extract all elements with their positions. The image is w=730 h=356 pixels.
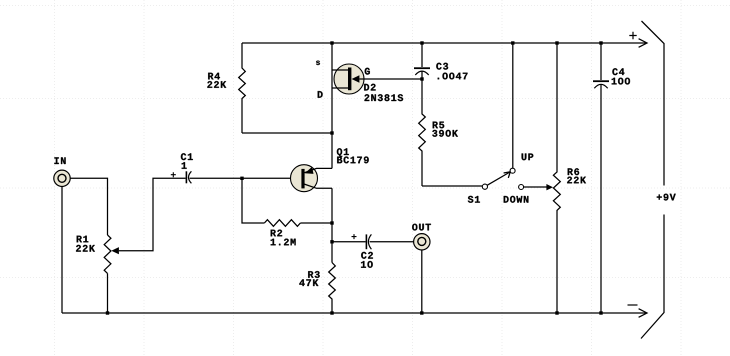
wire IN to R1 top bbox=[70, 178, 107, 235]
label C4 bbox=[612, 68, 624, 75]
junction C3 top rail bbox=[420, 41, 423, 44]
label R4 value 22K bbox=[207, 81, 226, 88]
wire C2 node to capacitor bbox=[332, 241, 366, 243]
junction R6 top rail bbox=[555, 41, 558, 44]
label C1 bbox=[181, 153, 193, 160]
label R1 value 22K bbox=[76, 245, 95, 252]
wire Q1 emitter down bbox=[331, 188, 333, 223]
connector IN bbox=[54, 170, 70, 186]
label D2 value 2N381S bbox=[365, 94, 404, 101]
potentiometer R6 bbox=[553, 43, 560, 313]
label R3 value 47K bbox=[299, 279, 318, 286]
label minus bbox=[628, 304, 638, 306]
label S1 bbox=[468, 196, 480, 203]
label plus bbox=[629, 32, 636, 39]
wire emitter node down to C2 node bbox=[331, 223, 333, 242]
capacitor C4 bbox=[593, 43, 609, 313]
label D2 bbox=[364, 84, 375, 91]
wire R5 to switch S1 bbox=[422, 185, 482, 187]
wire C2 to OUT bbox=[370, 241, 414, 243]
label UP bbox=[522, 154, 534, 161]
junction gate C3 node bbox=[420, 77, 423, 80]
junction collector node bbox=[330, 131, 333, 134]
junction R3 ground rail bbox=[330, 311, 333, 314]
wire D2 column bbox=[331, 43, 333, 133]
label R2 value 1.2M bbox=[271, 239, 296, 246]
wire R1 wiper to C1 bbox=[119, 178, 186, 250]
junction C4 ground rail bbox=[599, 311, 602, 314]
junction C4 top rail bbox=[599, 41, 602, 44]
junction UP rail bbox=[511, 41, 514, 44]
resistor R5 bbox=[419, 79, 426, 186]
label OUT bbox=[412, 224, 431, 231]
label pin G bbox=[365, 68, 370, 75]
junction node C1 R2 bbox=[240, 177, 243, 180]
capacitor C2 bbox=[352, 234, 372, 249]
connector OUT bbox=[414, 234, 430, 250]
junction OUT ground rail bbox=[420, 311, 423, 314]
wire Q1 collector up bbox=[331, 133, 333, 168]
battery positive terminal arrow bbox=[639, 39, 647, 48]
battery bracket positive bbox=[642, 21, 665, 186]
switch S1 bbox=[482, 168, 523, 189]
wire junction down to R2 bbox=[242, 178, 264, 223]
label Q1 bbox=[337, 148, 349, 157]
wire IN down to ground rail bbox=[61, 187, 63, 314]
wire C1 to Q1 base bbox=[190, 177, 302, 179]
label R5 bbox=[433, 122, 445, 129]
junction C2 node bbox=[330, 240, 333, 243]
capacitor C3 bbox=[414, 43, 430, 79]
label Q1 value BC179 bbox=[337, 157, 369, 164]
wire DOWN terminal to R6 wiper bbox=[524, 184, 553, 190]
capacitor C1 bbox=[171, 171, 192, 183]
label R2 bbox=[271, 230, 282, 237]
wire bottom ground rail bbox=[62, 312, 647, 314]
resistor R2 bbox=[264, 220, 300, 227]
resistor R3 bbox=[329, 263, 336, 314]
label C1 value 1 bbox=[182, 162, 187, 169]
junction R6 ground rail bbox=[555, 311, 558, 314]
label C3 value .0047 bbox=[438, 73, 468, 80]
label pin D bbox=[318, 91, 323, 98]
wire UP terminal to rail bbox=[512, 43, 514, 168]
junction D2 column top rail bbox=[330, 41, 333, 44]
battery bracket negative bbox=[641, 215, 664, 339]
label pin s bbox=[316, 61, 320, 65]
potentiometer R1 bbox=[104, 235, 119, 273]
label R1 bbox=[77, 236, 89, 243]
label R4 bbox=[208, 73, 220, 80]
label C2 bbox=[361, 252, 373, 259]
label R5 value 390K bbox=[432, 130, 458, 137]
label R3 bbox=[308, 271, 320, 278]
wire C2 node to R3 bbox=[331, 242, 333, 263]
junction R1 ground bbox=[106, 311, 109, 314]
label IN bbox=[54, 157, 65, 164]
label +9V bbox=[657, 194, 676, 201]
label R6 value 22K bbox=[567, 177, 586, 184]
wire R4 bottom link bbox=[242, 132, 332, 134]
battery negative terminal arrow bbox=[639, 309, 647, 318]
resistor R4 bbox=[239, 43, 246, 133]
wire top supply rail bbox=[242, 42, 647, 44]
label DOWN bbox=[504, 196, 529, 203]
wire OUT to ground rail bbox=[421, 250, 423, 313]
label R6 bbox=[568, 168, 579, 175]
label C3 bbox=[436, 63, 448, 70]
wire R2 to emitter node bbox=[300, 222, 332, 224]
label C4 value 100 bbox=[612, 78, 630, 85]
junction R2 emitter node bbox=[330, 221, 333, 224]
label C2 value 10 bbox=[361, 261, 373, 268]
transistor D2 bbox=[332, 64, 421, 94]
transistor Q1 bbox=[291, 165, 333, 192]
wire R1 bottom to ground rail bbox=[107, 273, 109, 313]
